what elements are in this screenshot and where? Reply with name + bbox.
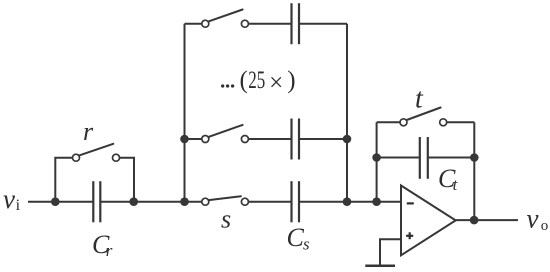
svg-text:i: i — [16, 197, 21, 214]
svg-text:v: v — [3, 184, 15, 214]
svg-text:×: × — [269, 69, 283, 96]
svg-text:(: ( — [240, 67, 248, 94]
svg-text:r: r — [83, 117, 94, 146]
svg-text:v: v — [527, 203, 539, 233]
svg-text:r: r — [106, 241, 113, 260]
svg-text:25: 25 — [248, 67, 265, 94]
svg-text:o: o — [541, 218, 549, 234]
svg-text:): ) — [287, 67, 295, 94]
svg-text:s: s — [221, 204, 231, 233]
svg-text:s: s — [303, 234, 310, 253]
svg-text:C: C — [287, 223, 305, 252]
svg-text:t: t — [415, 84, 424, 115]
svg-text:t: t — [453, 175, 459, 194]
